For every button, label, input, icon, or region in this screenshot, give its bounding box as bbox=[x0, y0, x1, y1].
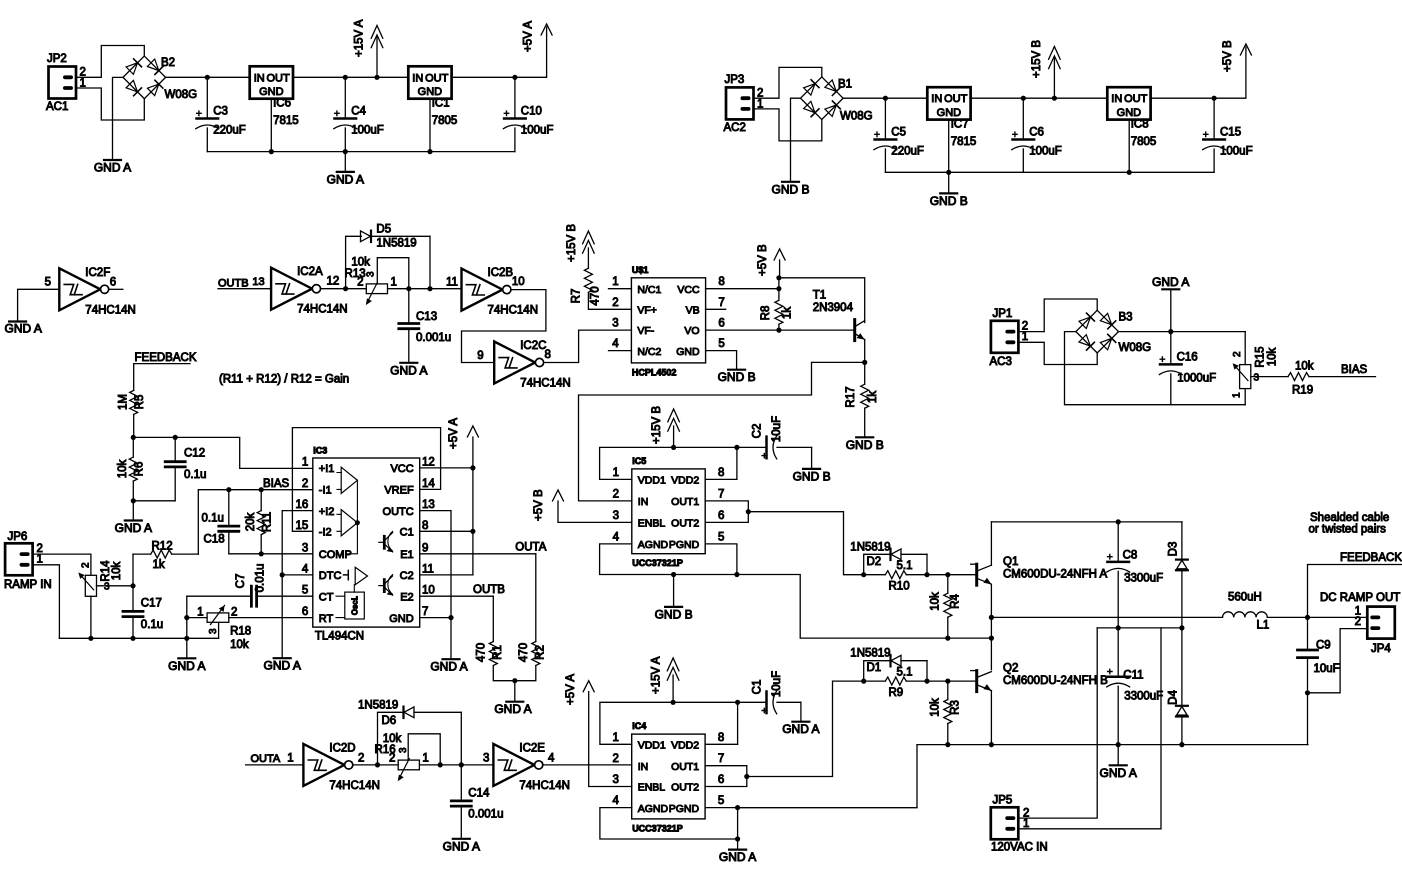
bridge rectifier B2 bbox=[123, 56, 144, 77]
node C8 top bbox=[1116, 519, 1121, 524]
svg-text:IC5: IC5 bbox=[632, 456, 646, 466]
node IC6 GND rail bbox=[269, 149, 274, 154]
node C9 bottom bbox=[1305, 690, 1310, 695]
diode D6 1N5819 bbox=[404, 707, 414, 718]
svg-text:470: 470 bbox=[518, 643, 530, 662]
svg-text:2: 2 bbox=[612, 753, 618, 765]
node IC3 GND bbox=[448, 615, 453, 620]
svg-text:GND B: GND B bbox=[771, 182, 809, 196]
diode D5 1N5819 bbox=[361, 231, 371, 242]
connector JP2 bbox=[49, 67, 77, 99]
wire Q1 collector rail bbox=[991, 521, 1182, 523]
svg-text:4: 4 bbox=[548, 753, 555, 765]
svg-text:0.01u: 0.01u bbox=[255, 564, 267, 593]
svg-text:FEEDBACK: FEEDBACK bbox=[135, 352, 197, 364]
wire mid rail C11/D4 bbox=[1097, 627, 1182, 629]
svg-text:GND: GND bbox=[259, 86, 284, 98]
svg-text:10k: 10k bbox=[930, 592, 942, 611]
svg-text:C1: C1 bbox=[400, 527, 414, 539]
svg-text:2N3904: 2N3904 bbox=[813, 302, 854, 314]
svg-text:8: 8 bbox=[545, 349, 551, 361]
node IC4 OUT bbox=[744, 774, 749, 779]
node VCC rail bbox=[776, 275, 781, 280]
node C12 top bbox=[173, 435, 178, 440]
svg-text:+I2: +I2 bbox=[319, 506, 335, 518]
svg-text:1: 1 bbox=[1023, 818, 1029, 830]
wire GND A to C16 node bbox=[1170, 289, 1172, 331]
svg-text:10k: 10k bbox=[930, 698, 942, 717]
svg-text:3300uF: 3300uF bbox=[1124, 573, 1163, 585]
svg-text:IC2F: IC2F bbox=[85, 267, 110, 279]
wire JP2 pin2 to bridge B2 AC1 bbox=[76, 46, 144, 78]
svg-text:220uF: 220uF bbox=[891, 146, 924, 158]
wire Q1 emitter to Q2 collector bbox=[990, 617, 992, 669]
svg-text:B2: B2 bbox=[161, 57, 175, 69]
svg-text:R6: R6 bbox=[134, 462, 146, 477]
wire R12 riser bbox=[132, 554, 134, 586]
node IC3 C1 bbox=[470, 529, 475, 534]
node IC5 OUT bbox=[746, 509, 751, 514]
svg-text:VB: VB bbox=[686, 305, 700, 317]
wire Q1 collector bbox=[990, 522, 992, 565]
node IC4 VDD2 bbox=[735, 700, 740, 705]
svg-text:+15V A: +15V A bbox=[651, 656, 663, 694]
svg-text:BIAS: BIAS bbox=[263, 478, 290, 490]
wire R12 to BIAS bbox=[198, 490, 312, 554]
wire L1 to JP4 pin1 bbox=[1267, 616, 1367, 618]
svg-text:7: 7 bbox=[718, 297, 724, 309]
svg-text:1: 1 bbox=[37, 554, 43, 566]
svg-text:470: 470 bbox=[475, 643, 487, 662]
svg-text:RT: RT bbox=[319, 613, 334, 625]
svg-text:C5: C5 bbox=[891, 127, 906, 139]
svg-text:12: 12 bbox=[422, 456, 435, 468]
svg-text:1N5819: 1N5819 bbox=[358, 699, 398, 711]
svg-text:GND A: GND A bbox=[327, 172, 364, 186]
svg-text:BIAS: BIAS bbox=[1341, 364, 1368, 376]
svg-text:10: 10 bbox=[512, 276, 525, 288]
svg-text:74HC14N: 74HC14N bbox=[520, 378, 571, 390]
svg-text:C1: C1 bbox=[752, 680, 764, 695]
svg-text:R4: R4 bbox=[950, 594, 962, 609]
node R9 right bbox=[924, 679, 929, 684]
svg-text:IC2D: IC2D bbox=[329, 742, 355, 754]
svg-text:+5V A: +5V A bbox=[448, 418, 460, 449]
svg-text:AC1: AC1 bbox=[46, 101, 68, 113]
svg-text:6: 6 bbox=[302, 606, 308, 618]
resistor R8 1k bbox=[778, 289, 780, 301]
svg-text:3: 3 bbox=[612, 318, 618, 330]
inductor L1 560uH bbox=[1223, 612, 1268, 618]
wire JP6 pin2 to R14 bbox=[33, 554, 91, 575]
wire IC4 OUT1/OUT2 tie bbox=[705, 766, 747, 787]
svg-text:D6: D6 bbox=[382, 715, 397, 727]
connector JP6 bbox=[5, 543, 32, 575]
svg-text:GND A: GND A bbox=[719, 850, 756, 864]
svg-text:-I1: -I1 bbox=[319, 485, 332, 497]
node IC5 VDD2 bbox=[734, 445, 739, 450]
svg-text:AGND: AGND bbox=[638, 803, 669, 815]
svg-text:9: 9 bbox=[422, 542, 428, 554]
svg-text:5: 5 bbox=[718, 531, 724, 543]
svg-text:W08G: W08G bbox=[840, 111, 873, 123]
svg-text:C10: C10 bbox=[521, 106, 542, 118]
svg-text:GND A: GND A bbox=[168, 659, 205, 673]
node L1 output bbox=[1305, 615, 1310, 620]
wire U$1 VCC to +5V B node bbox=[706, 288, 779, 290]
node D5 left riser bbox=[343, 286, 348, 291]
svg-text:3: 3 bbox=[208, 628, 219, 634]
inverter IC2A bbox=[271, 268, 312, 310]
svg-text:(R11 + R12) / R12 = Gain: (R11 + R12) / R12 = Gain bbox=[219, 374, 349, 386]
node R11 top bbox=[259, 487, 264, 492]
wire IC3 C1 pin bbox=[420, 530, 473, 532]
svg-text:JP2: JP2 bbox=[47, 53, 67, 65]
svg-text:1: 1 bbox=[287, 753, 293, 765]
driver IC4 UCC37321P bbox=[632, 734, 705, 819]
svg-text:GND A: GND A bbox=[1100, 766, 1137, 780]
svg-text:9: 9 bbox=[477, 350, 483, 362]
svg-text:2: 2 bbox=[302, 478, 308, 490]
ground GND A (R1/R2) bbox=[506, 701, 523, 703]
svg-text:AGND: AGND bbox=[638, 539, 669, 551]
potentiometer R18 bbox=[207, 613, 229, 622]
wire B3 minus to rail bbox=[1065, 332, 1246, 405]
svg-text:D5: D5 bbox=[376, 223, 391, 235]
node Q1 emitter bbox=[989, 615, 994, 620]
wire IC8 GND bbox=[1128, 120, 1130, 173]
inverter IC2C bbox=[494, 342, 535, 384]
wire C1 to ground bbox=[800, 702, 802, 721]
svg-text:IC3: IC3 bbox=[313, 446, 327, 456]
resistor R7 470 bbox=[584, 268, 592, 292]
node DTC junction bbox=[280, 572, 285, 577]
wire D2 branch down bbox=[926, 554, 928, 574]
svg-text:74HC14N: 74HC14N bbox=[85, 304, 136, 316]
wire IC3 GND pin bbox=[420, 617, 451, 619]
wire GND A drop (C11) bbox=[1117, 745, 1119, 766]
svg-text:10k: 10k bbox=[383, 733, 402, 745]
wire T1 emitter to IC5 IN bbox=[579, 362, 865, 501]
svg-text:IC2A: IC2A bbox=[297, 266, 323, 278]
svg-text:C16: C16 bbox=[1177, 352, 1198, 364]
svg-text:1: 1 bbox=[302, 456, 308, 468]
wire C9 to JP4 pin2 bbox=[1308, 629, 1368, 693]
node R4 bottom bbox=[945, 636, 950, 641]
svg-text:R19: R19 bbox=[1292, 385, 1313, 397]
svg-text:OUT2: OUT2 bbox=[671, 518, 699, 530]
svg-text:100uF: 100uF bbox=[1029, 146, 1062, 158]
wire C2 to ground bbox=[811, 447, 813, 469]
svg-text:C13: C13 bbox=[416, 311, 437, 323]
svg-text:DTC: DTC bbox=[319, 570, 342, 582]
wire JP1 pin2 to bridge B3 bbox=[1018, 299, 1097, 332]
svg-text:R8: R8 bbox=[760, 306, 772, 321]
svg-text:1: 1 bbox=[1232, 392, 1243, 398]
capacitor C13 bbox=[408, 289, 410, 324]
svg-text:C9: C9 bbox=[1316, 640, 1331, 652]
wire COMP line bbox=[229, 553, 313, 555]
wire IC3 E2 OUTB bbox=[420, 595, 494, 597]
svg-text:VO: VO bbox=[684, 325, 699, 337]
svg-text:+15V A: +15V A bbox=[354, 19, 366, 57]
svg-text:OUT: OUT bbox=[425, 72, 449, 84]
power +15V A (PSU) bbox=[376, 37, 378, 77]
capacitor C1 10uF bbox=[738, 701, 767, 703]
svg-text:OUTB: OUTB bbox=[473, 584, 505, 596]
wire R15 wiper to R19 bbox=[1251, 376, 1288, 378]
svg-text:7: 7 bbox=[718, 488, 724, 500]
svg-text:OUT1: OUT1 bbox=[671, 496, 699, 508]
svg-text:OUTA: OUTA bbox=[251, 753, 281, 765]
connector JP4 bbox=[1367, 607, 1395, 639]
svg-text:7: 7 bbox=[422, 606, 428, 618]
wire R13 out bbox=[388, 288, 462, 290]
resistor R6 10k bbox=[132, 437, 134, 457]
svg-text:JP5: JP5 bbox=[993, 795, 1013, 807]
svg-text:2: 2 bbox=[81, 562, 92, 568]
svg-text:DC RAMP OUT: DC RAMP OUT bbox=[1320, 592, 1400, 604]
svg-text:VCC: VCC bbox=[677, 284, 700, 296]
svg-text:8: 8 bbox=[718, 467, 724, 479]
node Q2 gate net left bbox=[861, 679, 866, 684]
capacitor C5 bbox=[884, 98, 886, 139]
ground GND B (rail B) bbox=[940, 192, 957, 194]
bridge rectifier B3 bbox=[1076, 310, 1097, 331]
svg-text:D1: D1 bbox=[867, 662, 882, 674]
svg-text:11: 11 bbox=[446, 277, 458, 289]
svg-text:GND A: GND A bbox=[494, 702, 531, 716]
svg-text:3: 3 bbox=[398, 747, 409, 753]
svg-text:12: 12 bbox=[327, 276, 340, 288]
wire JP3 pin2 to bridge B1 AC1 bbox=[754, 67, 822, 98]
diode D4 bbox=[1181, 628, 1183, 706]
ground GND A (R6/C12) bbox=[125, 519, 142, 521]
svg-text:VDD1: VDD1 bbox=[638, 740, 666, 752]
node +15V B tap bbox=[1052, 96, 1057, 101]
svg-text:2: 2 bbox=[358, 753, 364, 765]
wire R1/R2 to ground bbox=[514, 681, 516, 702]
node U$1 pin8 bbox=[776, 286, 781, 291]
wire IC3 OUTC to GND bbox=[420, 511, 451, 618]
svg-text:2: 2 bbox=[231, 607, 237, 619]
wire IC7 GND bbox=[948, 120, 950, 173]
svg-text:10k: 10k bbox=[1266, 347, 1278, 366]
svg-text:GND A: GND A bbox=[5, 322, 42, 336]
svg-text:+5V B: +5V B bbox=[1222, 40, 1234, 72]
svg-text:R3: R3 bbox=[950, 700, 962, 715]
wire IC3 GND drop bbox=[450, 618, 452, 660]
svg-text:1: 1 bbox=[422, 753, 428, 765]
ground GND A (IC4) bbox=[729, 848, 746, 850]
svg-text:U$1: U$1 bbox=[632, 265, 649, 275]
svg-text:6: 6 bbox=[718, 774, 724, 786]
wire R15 pin2 riser bbox=[1244, 332, 1246, 365]
svg-text:E1: E1 bbox=[400, 549, 413, 561]
ground GND B (bridge B1) bbox=[782, 181, 799, 183]
wire IC1 GND bbox=[429, 99, 431, 152]
svg-text:7815: 7815 bbox=[273, 115, 299, 127]
svg-text:+15V B: +15V B bbox=[651, 406, 663, 444]
svg-text:Oscl.: Oscl. bbox=[351, 596, 360, 616]
resistor R3 10k bbox=[947, 681, 949, 699]
wire R15 pin1 riser bbox=[1244, 389, 1246, 405]
node IC7 GND rail bbox=[946, 170, 951, 175]
svg-text:IN: IN bbox=[412, 72, 423, 84]
svg-text:7815: 7815 bbox=[951, 136, 977, 148]
wire OUTB to IC2A bbox=[218, 288, 271, 290]
wire IC1 OUT to +5V A bbox=[452, 27, 547, 77]
svg-text:IC6: IC6 bbox=[273, 98, 291, 110]
svg-text:R15: R15 bbox=[1254, 346, 1266, 367]
wire R16 wiper loop bbox=[408, 734, 440, 765]
wire FEEDBACK riser bbox=[1308, 565, 1402, 618]
node feedback divider bbox=[131, 435, 136, 440]
wire IC5 PGND stub bbox=[705, 544, 737, 575]
svg-text:JP6: JP6 bbox=[8, 531, 28, 543]
wire R18 pin2 to IC3 RT bbox=[229, 617, 313, 619]
svg-text:470: 470 bbox=[590, 286, 602, 305]
svg-text:IC2C: IC2C bbox=[520, 340, 546, 352]
svg-text:10k: 10k bbox=[230, 639, 249, 651]
resistor R1 470 bbox=[492, 596, 494, 641]
capacitor C12 0.1u bbox=[174, 437, 176, 461]
node D4 bottom bbox=[1179, 742, 1184, 747]
node +15V A tap bbox=[374, 75, 379, 80]
node C4 bottom bbox=[343, 149, 348, 154]
svg-text:IN: IN bbox=[638, 761, 649, 773]
node C8/C11 bbox=[1116, 625, 1121, 630]
svg-text:TL494CN: TL494CN bbox=[315, 631, 364, 643]
wire R18 pin1 bbox=[187, 617, 207, 619]
svg-text:B1: B1 bbox=[838, 79, 852, 91]
wire IC7 OUT to IC8 IN bbox=[971, 97, 1108, 99]
svg-text:100uF: 100uF bbox=[1220, 146, 1253, 158]
ground GND A (C13) bbox=[400, 362, 417, 364]
capacitor C3 bbox=[206, 77, 208, 118]
connector JP5 bbox=[991, 807, 1019, 839]
svg-text:5: 5 bbox=[302, 585, 308, 597]
svg-text:OUTC: OUTC bbox=[383, 506, 414, 518]
optocoupler U$1 HCPL4502 bbox=[631, 278, 705, 363]
wire B1 plus to IC7 IN bbox=[843, 97, 927, 99]
node R18 pin1 bbox=[184, 615, 189, 620]
svg-text:IC2B: IC2B bbox=[488, 267, 514, 279]
svg-text:5.1: 5.1 bbox=[897, 560, 913, 572]
power +15V A (IC4) bbox=[667, 658, 679, 671]
wire ground rail A bbox=[207, 151, 515, 153]
svg-text:GND A: GND A bbox=[115, 521, 152, 535]
svg-text:W08G: W08G bbox=[165, 89, 198, 101]
svg-text:GND B: GND B bbox=[793, 469, 831, 483]
svg-text:2: 2 bbox=[357, 277, 363, 289]
capacitor C7 0.01u bbox=[251, 586, 256, 606]
svg-text:UCC37321P: UCC37321P bbox=[632, 823, 683, 833]
svg-text:10uF: 10uF bbox=[771, 416, 783, 442]
node C6 top bbox=[1021, 96, 1026, 101]
inverter IC2B bbox=[462, 269, 503, 311]
svg-text:10uF: 10uF bbox=[1314, 663, 1340, 675]
ground GND A (IC3) bbox=[443, 658, 460, 660]
oscillator block (IC3 internal) bbox=[345, 592, 365, 619]
node Q2 emitter bbox=[989, 742, 994, 747]
node +15V A IC4 bbox=[671, 700, 676, 705]
wire +5V A riser bbox=[472, 437, 474, 575]
node IC4 ground bbox=[735, 836, 740, 841]
svg-text:OUT: OUT bbox=[1124, 93, 1148, 105]
wire B3 plus rail bbox=[1119, 331, 1246, 333]
wire IC2C output to U$1 VF- bbox=[544, 330, 632, 362]
ground GND A (ramp rail) bbox=[178, 657, 195, 659]
wire B2 minus to ground bbox=[113, 77, 124, 160]
node Q1 gate net left bbox=[861, 572, 866, 577]
ground GND A (bridge B2) bbox=[104, 159, 121, 161]
svg-text:GND A: GND A bbox=[264, 659, 301, 673]
svg-text:5.1: 5.1 bbox=[897, 666, 913, 678]
node R11 bottom bbox=[259, 551, 264, 556]
resistor R11 20k bbox=[260, 490, 262, 511]
power +5V B (PSU) bbox=[1240, 44, 1251, 55]
resistor R5 1M bbox=[130, 390, 138, 414]
node C15 top bbox=[1212, 96, 1217, 101]
pin stub U$1 pin7 VB bbox=[706, 308, 726, 310]
svg-text:10k: 10k bbox=[111, 561, 123, 580]
svg-text:10: 10 bbox=[422, 585, 435, 597]
svg-text:4: 4 bbox=[302, 563, 309, 575]
connector JP3 bbox=[726, 87, 754, 119]
wire D2 branch up bbox=[864, 554, 890, 574]
capacitor C18 0.1u bbox=[228, 490, 230, 526]
wire IC2F input to ground bbox=[18, 289, 60, 321]
svg-text:C12: C12 bbox=[184, 448, 205, 460]
wire IC5 ground drop bbox=[673, 575, 675, 607]
svg-text:C2: C2 bbox=[400, 570, 414, 582]
svg-text:C18: C18 bbox=[204, 534, 225, 546]
svg-text:JP3: JP3 bbox=[725, 74, 745, 86]
wire C7/CT line bbox=[187, 595, 252, 597]
inverter IC2F bbox=[59, 268, 100, 310]
node R6 bottom bbox=[131, 498, 136, 503]
svg-text:+5V B: +5V B bbox=[757, 244, 769, 276]
voltage regulator IC8 7805 bbox=[1107, 87, 1150, 119]
svg-text:2: 2 bbox=[1232, 351, 1243, 357]
svg-text:GND A: GND A bbox=[390, 363, 427, 377]
svg-text:RAMP IN: RAMP IN bbox=[4, 579, 52, 591]
ground GND A (DTC) bbox=[274, 657, 291, 659]
svg-text:IC2E: IC2E bbox=[519, 742, 545, 754]
wire D5 branch right bbox=[429, 236, 431, 288]
svg-text:-I2: -I2 bbox=[319, 527, 332, 539]
svg-text:1M: 1M bbox=[117, 394, 129, 410]
svg-text:R7: R7 bbox=[571, 289, 583, 304]
svg-text:VDD1: VDD1 bbox=[638, 475, 666, 487]
svg-text:C8: C8 bbox=[1123, 550, 1138, 562]
svg-text:7805: 7805 bbox=[1131, 136, 1157, 148]
svg-text:R18: R18 bbox=[230, 626, 251, 638]
diode D3 bbox=[1181, 522, 1183, 560]
capacitor C16 1000uF bbox=[1170, 332, 1172, 365]
svg-text:GND: GND bbox=[389, 613, 414, 625]
node R3 top bbox=[945, 679, 950, 684]
svg-text:C4: C4 bbox=[351, 106, 366, 118]
wire C9 bottom to rail bbox=[1307, 693, 1309, 745]
pin stub U$1 pin1 N/C bbox=[609, 288, 632, 290]
svg-text:7: 7 bbox=[718, 753, 724, 765]
wire C7 left riser bbox=[186, 596, 188, 658]
svg-text:1k: 1k bbox=[867, 391, 879, 403]
wire IC2F output stub bbox=[109, 288, 123, 290]
ground GND B (U$1) bbox=[728, 369, 745, 371]
